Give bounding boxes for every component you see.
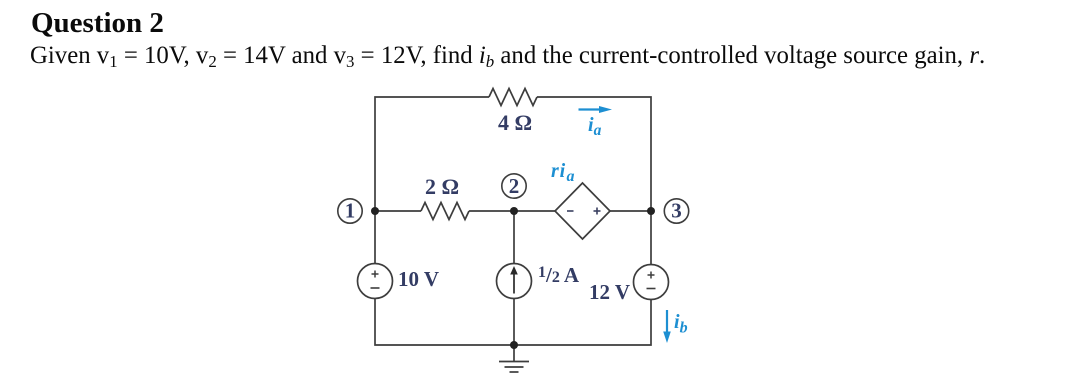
wire left branch lower — [375, 299, 514, 346]
svg-text:2: 2 — [509, 174, 520, 198]
voltage source V2 12V circle — [634, 265, 669, 300]
resistor 4 ohm — [489, 89, 537, 106]
dependent source polarity minus — [567, 210, 574, 212]
wire middle branch upper — [513, 211, 515, 264]
junction dot node1 — [371, 207, 379, 215]
node 1 circle — [338, 199, 362, 223]
dependent source polarity plus — [594, 208, 601, 215]
junction dot node3 — [647, 207, 655, 215]
wire middle branch lower — [513, 299, 515, 346]
resistor 2 ohm — [421, 203, 469, 220]
node 2 circle — [502, 174, 526, 198]
svg-text:ria: ria — [551, 160, 575, 185]
wire right branch lower — [514, 300, 651, 346]
problem statement — [30, 42, 985, 74]
ground — [499, 345, 529, 372]
V1 polarity plus — [372, 271, 379, 278]
V2 polarity minus — [647, 288, 656, 290]
current source I1 circle — [497, 264, 532, 299]
V1 polarity minus — [371, 287, 380, 289]
svg-text:ia: ia — [588, 114, 602, 139]
wire top-right segment — [537, 97, 651, 211]
current arrow ia — [579, 106, 613, 113]
svg-text:3: 3 — [671, 199, 682, 223]
dependent source diamond — [555, 183, 610, 239]
wire diamond to right — [610, 210, 651, 212]
wire right branch upper — [650, 211, 652, 265]
junction dot ground — [510, 341, 518, 349]
V2 polarity plus — [648, 272, 655, 279]
wire top-left segment — [375, 97, 489, 211]
wire middle left — [375, 210, 421, 212]
wire middle to diamond — [469, 210, 555, 212]
current arrow ib — [663, 310, 671, 343]
svg-text:12 V: 12 V — [589, 280, 630, 304]
svg-text:ib: ib — [674, 311, 688, 337]
node 3 circle — [664, 199, 688, 223]
svg-text:4 Ω: 4 Ω — [498, 110, 532, 135]
svg-text:10 V: 10 V — [398, 267, 439, 291]
wire left branch upper — [374, 211, 376, 264]
svg-text:2 Ω: 2 Ω — [425, 174, 459, 199]
junction dot node2 — [510, 207, 518, 215]
current source I1 arrow — [510, 266, 518, 294]
svg-text:1: 1 — [345, 199, 356, 223]
svg-text:1/2 A: 1/2 A — [538, 263, 580, 287]
title — [31, 7, 164, 40]
voltage source V1 10V circle — [358, 264, 393, 299]
